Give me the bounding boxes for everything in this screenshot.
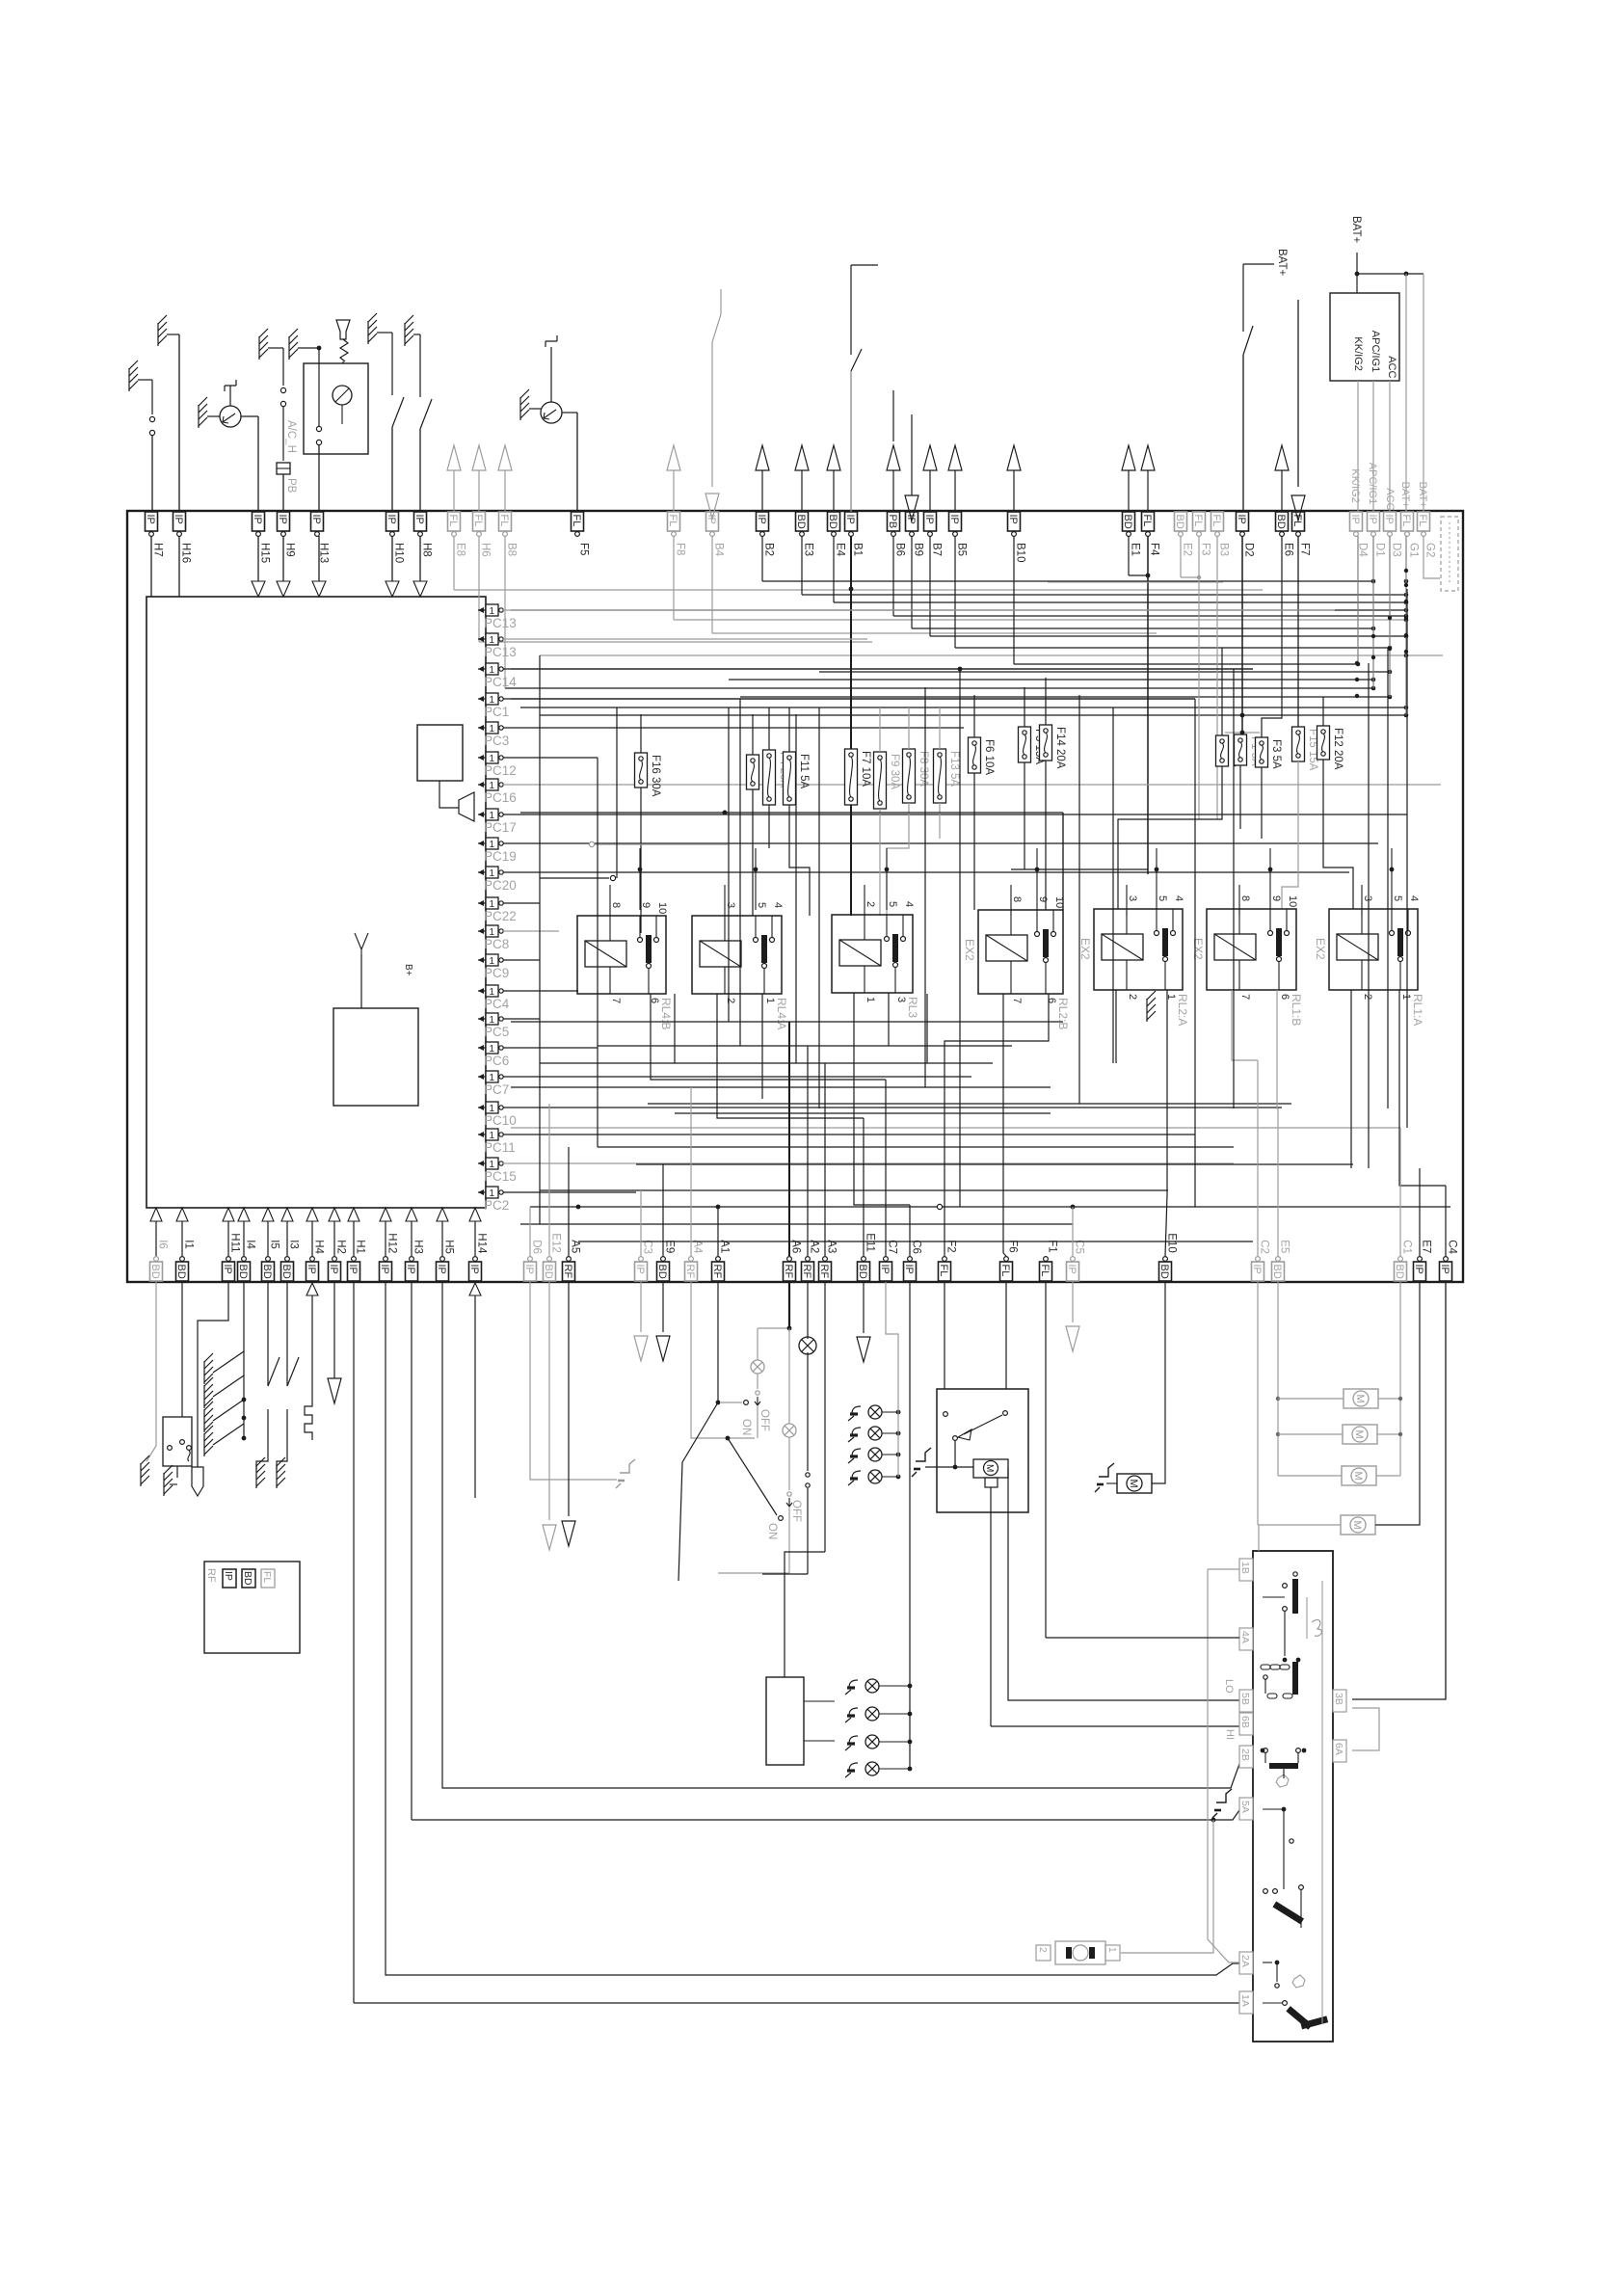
svg-text:PC4: PC4 — [484, 997, 510, 1011]
svg-text:PC10: PC10 — [484, 1113, 517, 1128]
svg-text:6: 6 — [1046, 998, 1057, 1003]
svg-text:F7: F7 — [1299, 543, 1311, 555]
svg-text:H14: H14 — [476, 1233, 488, 1254]
svg-text:PC12: PC12 — [484, 763, 517, 778]
svg-text:4: 4 — [772, 902, 784, 908]
svg-text:RL1:B: RL1:B — [1290, 994, 1303, 1026]
svg-text:C1: C1 — [1401, 1240, 1413, 1254]
svg-text:PB: PB — [887, 515, 898, 529]
svg-text:10: 10 — [1287, 895, 1298, 907]
svg-text:EX2: EX2 — [1314, 938, 1327, 960]
svg-text:IP: IP — [1349, 515, 1361, 524]
svg-text:BD: BD — [827, 515, 838, 529]
svg-text:BD: BD — [1174, 515, 1185, 529]
svg-text:FL: FL — [498, 515, 510, 527]
svg-text:IP: IP — [145, 515, 156, 524]
svg-text:BAT+: BAT+ — [1417, 482, 1428, 508]
svg-text:2A: 2A — [1239, 1955, 1251, 1967]
svg-text:F5: F5 — [578, 543, 590, 555]
svg-text:IP: IP — [1383, 515, 1395, 524]
svg-text:BAT+: BAT+ — [1276, 249, 1288, 277]
svg-text:D6: D6 — [531, 1240, 543, 1254]
svg-text:3B: 3B — [1333, 1693, 1344, 1705]
svg-text:F3: F3 — [1200, 543, 1211, 555]
svg-text:H1: H1 — [355, 1240, 366, 1254]
svg-text:H10: H10 — [393, 543, 405, 563]
svg-text:PC14: PC14 — [484, 675, 517, 689]
svg-text:H5: H5 — [443, 1240, 455, 1254]
svg-text:E3: E3 — [803, 543, 814, 556]
svg-text:2: 2 — [1037, 1947, 1048, 1953]
svg-text:EX2: EX2 — [1191, 938, 1205, 960]
svg-text:PC3: PC3 — [484, 734, 509, 748]
svg-text:BAT+: BAT+ — [1350, 216, 1362, 244]
svg-text:IP: IP — [386, 515, 397, 524]
svg-text:BD: BD — [1271, 1265, 1283, 1279]
svg-text:PC7: PC7 — [484, 1082, 509, 1097]
svg-text:4: 4 — [903, 901, 915, 907]
svg-text:4: 4 — [1173, 895, 1184, 901]
svg-text:PC15: PC15 — [484, 1169, 517, 1184]
svg-text:I5: I5 — [269, 1240, 280, 1249]
svg-text:H6: H6 — [480, 543, 492, 557]
svg-text:EX2: EX2 — [1078, 938, 1092, 960]
svg-text:IP: IP — [468, 1265, 480, 1274]
svg-text:IP: IP — [844, 515, 856, 524]
svg-text:1: 1 — [865, 997, 876, 1002]
svg-text:F4: F4 — [1149, 543, 1160, 556]
svg-text:B+: B+ — [403, 964, 413, 976]
svg-text:3: 3 — [895, 997, 907, 1002]
svg-text:1: 1 — [764, 998, 776, 1003]
svg-text:M: M — [1351, 1521, 1363, 1530]
svg-text:H12: H12 — [386, 1233, 398, 1253]
svg-text:H16: H16 — [180, 543, 192, 563]
svg-text:1A: 1A — [1239, 1994, 1251, 2007]
svg-text:F7 10A: F7 10A — [860, 751, 871, 787]
svg-text:FL: FL — [667, 515, 678, 527]
svg-text:F8: F8 — [675, 543, 686, 555]
svg-text:I6: I6 — [157, 1240, 169, 1249]
svg-text:IP: IP — [756, 515, 767, 524]
svg-text:BD: BD — [1394, 1265, 1405, 1279]
svg-text:FL: FL — [1192, 515, 1204, 527]
svg-text:F11 5A: F11 5A — [798, 754, 810, 789]
svg-text:B7: B7 — [931, 543, 943, 556]
svg-text:1: 1 — [1106, 1947, 1117, 1953]
svg-text:FL: FL — [1417, 515, 1428, 527]
svg-text:PC16: PC16 — [484, 790, 517, 805]
svg-text:IP: IP — [903, 1265, 915, 1274]
svg-text:FL: FL — [1141, 515, 1153, 527]
svg-text:I4: I4 — [245, 1240, 256, 1249]
svg-text:9: 9 — [640, 902, 652, 908]
svg-text:RF: RF — [783, 1265, 794, 1279]
svg-text:IP: IP — [277, 515, 288, 524]
svg-text:ON: ON — [740, 1419, 752, 1435]
svg-text:E6: E6 — [1283, 543, 1294, 556]
svg-text:2: 2 — [1127, 994, 1138, 1000]
svg-text:RL2:B: RL2:B — [1056, 998, 1070, 1029]
svg-text:FL: FL — [447, 515, 459, 527]
svg-text:IP: IP — [379, 1265, 390, 1274]
svg-text:APC/IG1: APC/IG1 — [1367, 463, 1378, 504]
svg-text:E12: E12 — [550, 1233, 562, 1252]
svg-text:3: 3 — [725, 902, 736, 908]
svg-text:PC1: PC1 — [484, 705, 509, 719]
svg-text:IP: IP — [310, 515, 322, 524]
svg-text:3: 3 — [1127, 895, 1138, 901]
svg-text:H13: H13 — [318, 543, 330, 563]
svg-text:IP: IP — [634, 1265, 646, 1274]
svg-text:IP: IP — [523, 1265, 535, 1274]
svg-text:E8: E8 — [455, 543, 466, 556]
svg-text:IP: IP — [223, 1571, 234, 1581]
svg-text:BAT+: BAT+ — [1399, 482, 1411, 508]
svg-text:HI: HI — [1224, 1729, 1236, 1740]
svg-text:FL: FL — [1211, 515, 1222, 527]
svg-text:IP: IP — [222, 1265, 233, 1274]
svg-text:I1: I1 — [183, 1240, 195, 1249]
svg-text:2: 2 — [725, 998, 736, 1003]
svg-text:F3 5A: F3 5A — [1270, 739, 1282, 769]
svg-text:B9: B9 — [913, 543, 924, 556]
svg-text:F6 10A: F6 10A — [983, 739, 995, 775]
svg-text:RF: RF — [684, 1265, 696, 1279]
svg-text:E2: E2 — [1182, 543, 1193, 556]
svg-text:FL: FL — [571, 515, 582, 527]
svg-text:C4: C4 — [1447, 1240, 1458, 1254]
svg-text:B3: B3 — [1218, 543, 1230, 556]
svg-text:OFF: OFF — [758, 1409, 770, 1431]
svg-text:IP: IP — [923, 515, 935, 524]
svg-text:G2: G2 — [1424, 543, 1436, 557]
svg-text:1B: 1B — [1239, 1562, 1251, 1574]
svg-text:M: M — [1352, 1472, 1364, 1481]
svg-text:EX2: EX2 — [963, 939, 976, 961]
svg-text:8: 8 — [1011, 896, 1023, 902]
svg-text:E1: E1 — [1130, 543, 1141, 556]
svg-text:9: 9 — [1270, 895, 1282, 901]
svg-text:PC13: PC13 — [484, 645, 517, 659]
svg-text:A/C_H: A/C_H — [285, 420, 297, 453]
svg-text:RL3: RL3 — [906, 997, 919, 1018]
svg-text:BD: BD — [149, 1265, 161, 1279]
svg-text:IP: IP — [1007, 515, 1019, 524]
svg-text:IP: IP — [252, 515, 263, 524]
svg-text:B5: B5 — [956, 543, 968, 556]
svg-text:RL2:A: RL2:A — [1176, 994, 1189, 1026]
svg-text:G1: G1 — [1408, 543, 1420, 557]
svg-text:2: 2 — [1362, 994, 1373, 1000]
svg-text:IP: IP — [328, 1265, 339, 1274]
svg-text:KK/IG2: KK/IG2 — [1352, 336, 1364, 370]
svg-text:IP: IP — [1367, 515, 1378, 524]
svg-text:RF: RF — [562, 1265, 573, 1279]
svg-text:BD: BD — [280, 1265, 292, 1279]
svg-text:PC6: PC6 — [484, 1054, 509, 1068]
svg-text:F12 20A: F12 20A — [1332, 728, 1344, 770]
svg-text:C2: C2 — [1259, 1240, 1270, 1254]
svg-text:B8: B8 — [506, 543, 518, 556]
svg-text:BD: BD — [242, 1571, 253, 1586]
svg-text:ACC: ACC — [1384, 488, 1396, 510]
svg-text:F9 30A: F9 30A — [889, 754, 900, 789]
svg-text:BD: BD — [1158, 1265, 1170, 1279]
svg-text:RL1:A: RL1:A — [1411, 994, 1424, 1026]
svg-text:PC22: PC22 — [484, 909, 517, 923]
svg-text:PC5: PC5 — [484, 1025, 509, 1039]
svg-text:ON: ON — [766, 1523, 778, 1539]
svg-text:2: 2 — [865, 901, 876, 907]
svg-text:9: 9 — [1037, 896, 1049, 902]
svg-text:IP: IP — [1066, 1265, 1078, 1274]
svg-text:H11: H11 — [229, 1233, 241, 1252]
svg-text:IP: IP — [1236, 515, 1247, 524]
svg-text:6: 6 — [1279, 994, 1290, 1000]
svg-text:BD: BD — [261, 1265, 273, 1279]
svg-text:8: 8 — [1239, 895, 1251, 901]
svg-text:8: 8 — [610, 902, 622, 908]
svg-text:LO: LO — [1223, 1679, 1235, 1694]
svg-text:M: M — [1354, 1395, 1366, 1403]
svg-text:PC19: PC19 — [484, 849, 517, 864]
svg-text:RF: RF — [818, 1265, 830, 1279]
svg-text:BD: BD — [543, 1265, 554, 1279]
svg-text:B4: B4 — [713, 543, 725, 557]
svg-text:RL4:B: RL4:B — [659, 998, 673, 1029]
svg-text:OFF: OFF — [790, 1500, 802, 1522]
svg-text:5: 5 — [1392, 895, 1403, 901]
svg-text:ACC: ACC — [1386, 356, 1397, 378]
svg-text:7: 7 — [610, 998, 622, 1003]
svg-text:M: M — [984, 1464, 995, 1472]
svg-text:IP: IP — [948, 515, 960, 524]
svg-text:FL: FL — [261, 1571, 273, 1583]
svg-text:H3: H3 — [412, 1240, 424, 1254]
svg-text:F16 30A: F16 30A — [650, 755, 661, 797]
svg-text:D1: D1 — [1374, 543, 1386, 557]
svg-text:5: 5 — [887, 901, 898, 907]
svg-text:D3: D3 — [1391, 543, 1402, 557]
svg-text:H2: H2 — [335, 1240, 347, 1254]
svg-text:PC2: PC2 — [484, 1198, 509, 1213]
svg-text:FL: FL — [938, 1265, 949, 1277]
svg-text:BD: BD — [1275, 515, 1287, 529]
svg-text:BD: BD — [857, 1265, 868, 1279]
svg-text:IP: IP — [413, 515, 425, 524]
svg-text:M: M — [1128, 1480, 1139, 1488]
svg-text:RF: RF — [205, 1568, 217, 1583]
svg-text:2B: 2B — [1239, 1749, 1251, 1761]
svg-text:FL: FL — [999, 1265, 1011, 1277]
svg-text:B2: B2 — [763, 543, 775, 556]
svg-text:B10: B10 — [1015, 543, 1026, 562]
svg-text:M: M — [1353, 1430, 1365, 1439]
svg-text:F8 30A: F8 30A — [918, 751, 929, 787]
svg-text:IP: IP — [436, 1265, 447, 1274]
svg-text:IP: IP — [306, 1265, 317, 1274]
svg-text:B6: B6 — [894, 543, 906, 556]
svg-text:H15: H15 — [259, 543, 271, 563]
svg-text:PC8: PC8 — [484, 937, 509, 951]
svg-text:IP: IP — [405, 1265, 416, 1274]
svg-text:PC13: PC13 — [484, 616, 517, 630]
svg-text:F13 5A: F13 5A — [948, 751, 960, 787]
svg-text:E5: E5 — [1279, 1240, 1290, 1253]
svg-text:D2: D2 — [1243, 543, 1255, 557]
svg-text:FL: FL — [472, 515, 484, 527]
svg-text:IP: IP — [1251, 1265, 1263, 1274]
svg-text:FL: FL — [1039, 1265, 1051, 1277]
svg-text:PB: PB — [285, 478, 297, 494]
svg-text:APC/IG1: APC/IG1 — [1370, 331, 1381, 372]
svg-text:E4: E4 — [835, 543, 846, 557]
svg-text:RF: RF — [711, 1265, 723, 1279]
svg-text:H7: H7 — [152, 543, 164, 557]
svg-text:RL4:A: RL4:A — [775, 998, 788, 1029]
svg-text:IP: IP — [173, 515, 184, 524]
svg-text:F14 20A: F14 20A — [1054, 727, 1066, 769]
svg-text:B1: B1 — [852, 543, 864, 556]
svg-text:5A: 5A — [1239, 1801, 1251, 1813]
svg-text:7: 7 — [1239, 994, 1251, 1000]
svg-text:4: 4 — [1408, 895, 1420, 901]
svg-text:PC11: PC11 — [484, 1140, 516, 1155]
svg-text:H4: H4 — [313, 1240, 325, 1254]
svg-text:5: 5 — [756, 902, 767, 908]
svg-text:E7: E7 — [1421, 1240, 1432, 1253]
svg-text:1: 1 — [1400, 994, 1412, 1000]
svg-text:6B: 6B — [1239, 1716, 1251, 1728]
svg-text:BD: BD — [175, 1265, 187, 1279]
svg-text:H9: H9 — [284, 543, 296, 557]
svg-text:10: 10 — [656, 902, 668, 914]
svg-text:PC17: PC17 — [484, 820, 517, 835]
svg-text:IP: IP — [1439, 1265, 1450, 1274]
svg-text:E10: E10 — [1166, 1233, 1178, 1252]
svg-text:6A: 6A — [1333, 1743, 1344, 1755]
svg-text:5B: 5B — [1239, 1693, 1251, 1705]
svg-text:3: 3 — [1362, 895, 1373, 901]
svg-text:RF: RF — [801, 1265, 812, 1279]
svg-text:7: 7 — [1011, 998, 1023, 1003]
svg-text:4A: 4A — [1239, 1631, 1251, 1643]
svg-text:FL: FL — [1400, 515, 1412, 527]
svg-text:IP: IP — [879, 1265, 891, 1274]
svg-text:I3: I3 — [288, 1240, 300, 1249]
svg-text:BD: BD — [237, 1265, 249, 1279]
svg-text:IP: IP — [347, 1265, 359, 1274]
svg-text:PC20: PC20 — [484, 878, 517, 893]
svg-text:E11: E11 — [865, 1233, 876, 1252]
svg-text:H8: H8 — [421, 543, 433, 557]
svg-text:PC9: PC9 — [484, 966, 509, 980]
svg-text:IP: IP — [1413, 1265, 1424, 1274]
svg-text:BD: BD — [795, 515, 807, 529]
svg-text:5: 5 — [1157, 895, 1168, 901]
svg-text:KK/IG2: KK/IG2 — [1349, 468, 1361, 502]
svg-text:BD: BD — [1122, 515, 1133, 529]
svg-text:BD: BD — [656, 1265, 668, 1279]
